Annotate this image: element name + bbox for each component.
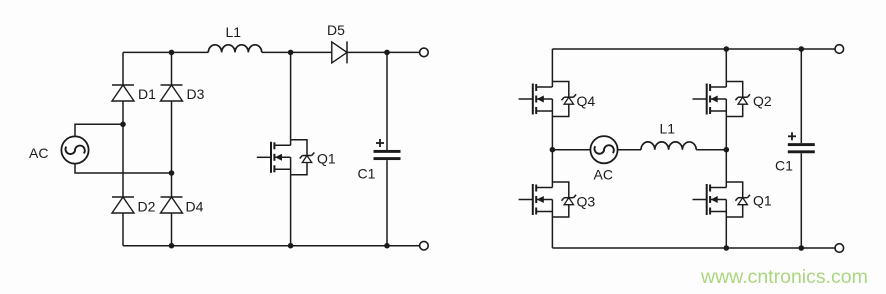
wire: right leg mid segment (Q2 source to Q1 drain)	[725, 117, 727, 183]
wire: D3 anode / D4 cathode column	[171, 101, 173, 197]
transistor Q4 (MOSFET with body diode)	[519, 82, 577, 117]
wire: Q3 source to bottom rail	[551, 217, 553, 248]
svg-text:D5: D5	[327, 22, 345, 38]
node: Q1 source junction on bottom rail	[724, 245, 730, 251]
wire: mid junction to AC source	[552, 149, 590, 151]
wire: AC top lead	[75, 124, 123, 136]
transistor Q1 (right MOSFET with body diode)	[693, 182, 751, 217]
wire: AC to L1	[618, 149, 641, 151]
node: C1 bottom junction (left)	[384, 243, 390, 249]
svg-text:C1: C1	[775, 158, 793, 174]
node: AC bottom junction	[169, 170, 175, 176]
wire: C1 bottom lead (left)	[386, 160, 388, 246]
svg-text:D3: D3	[187, 86, 205, 102]
transistor Q2 (MOSFET with body diode)	[693, 82, 751, 117]
node: C1 bottom junction (right)	[799, 245, 805, 251]
svg-text:Q1: Q1	[317, 151, 336, 167]
node: C1 top junction (left)	[384, 50, 390, 56]
node: Q1 drain junction on top rail	[288, 50, 294, 56]
wire: right top rail	[552, 48, 835, 50]
transistor Q1 (left MOSFET with body diode)	[257, 140, 315, 175]
wire: D3 cathode to top rail	[171, 52, 173, 85]
diode D4	[161, 196, 183, 198]
wire: Q4 drain from top rail	[551, 49, 553, 82]
svg-text:D1: D1	[138, 86, 156, 102]
node: Q1 source junction on bottom rail	[288, 243, 294, 249]
svg-text:AC: AC	[29, 145, 48, 161]
wire: left top rail segment (L1 to D5)	[262, 51, 332, 53]
AC source (right)	[590, 136, 617, 163]
wire: D4 anode to bottom rail	[171, 213, 173, 246]
inductor L1 (right)	[641, 142, 696, 150]
wire: left top rail segment (bridge to L1)	[123, 51, 208, 53]
wire: Q1 source to bottom rail	[725, 217, 727, 248]
terminal: left output +	[420, 48, 429, 57]
wire: left bottom rail	[123, 245, 420, 247]
svg-text:D2: D2	[138, 199, 156, 215]
diode D2	[112, 196, 134, 198]
capacitor C1 (left)	[374, 150, 401, 153]
svg-text:L1: L1	[226, 24, 242, 40]
node: Q2 drain junction on top rail	[724, 46, 730, 52]
svg-text:D4: D4	[186, 199, 204, 215]
wire: AC bottom lead	[75, 164, 172, 173]
svg-text:AC: AC	[594, 167, 613, 183]
node: C1 top junction (right)	[799, 46, 805, 52]
svg-text:Q1: Q1	[753, 193, 772, 209]
node: AC top junction	[120, 122, 126, 128]
node: right leg mid junction	[724, 147, 730, 153]
wire: left leg mid segment (Q4 source to Q3 drain)	[551, 117, 553, 183]
node: D3 top junction	[169, 50, 175, 56]
wire: left top rail segment (D5 to output)	[347, 51, 420, 53]
wire: right bottom rail	[552, 247, 835, 249]
svg-text:L1: L1	[660, 121, 676, 137]
wire: C1 top lead (right)	[800, 49, 802, 143]
capacitor C1 (right)	[788, 143, 815, 146]
svg-text:Q2: Q2	[753, 93, 772, 109]
wire: C1 top lead (left)	[386, 52, 388, 150]
polarity + (right C1)	[788, 135, 796, 137]
svg-text:www.cntronics.com: www.cntronics.com	[700, 266, 868, 288]
polarity + (left C1)	[376, 142, 384, 144]
wire: D1 cathode to top rail	[122, 52, 124, 85]
wire: Q1 source	[290, 175, 292, 246]
wire: D1 anode / D2 cathode column	[122, 101, 124, 197]
wire: Q2 drain from top rail	[725, 49, 727, 82]
transistor Q3 (MOSFET with body diode)	[519, 182, 577, 217]
svg-text:Q4: Q4	[577, 93, 596, 109]
wire: D2 anode to bottom rail	[122, 213, 124, 246]
AC source (left)	[61, 136, 88, 163]
diode D3	[161, 84, 183, 86]
wire: L1 to right leg	[696, 149, 726, 151]
svg-text:Q3: Q3	[577, 194, 596, 210]
wire: C1 bottom lead (right)	[800, 153, 802, 248]
terminal: right output -	[835, 244, 844, 253]
terminal: right output +	[835, 45, 844, 54]
diode D1	[112, 84, 134, 86]
node: left leg mid junction	[550, 147, 556, 153]
svg-text:C1: C1	[358, 166, 376, 182]
terminal: left output -	[420, 241, 429, 250]
diode D5	[332, 42, 347, 63]
wire: Q1 drain	[290, 52, 292, 139]
inductor L1 (left)	[208, 45, 261, 53]
node: D4 bottom junction	[169, 243, 175, 249]
